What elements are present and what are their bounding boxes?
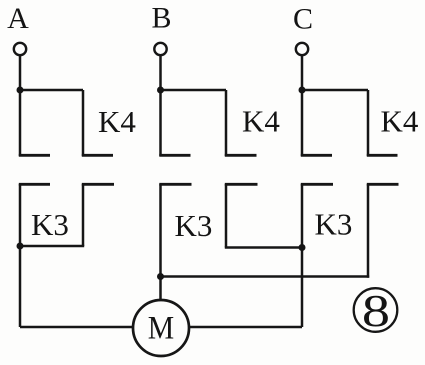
svg-text:K4: K4	[98, 104, 136, 139]
svg-text:B: B	[151, 2, 171, 35]
svg-text:K3: K3	[175, 208, 213, 243]
svg-text:M: M	[148, 309, 174, 346]
svg-text:C: C	[293, 3, 313, 36]
svg-text:A: A	[7, 2, 29, 35]
svg-text:8: 8	[362, 287, 390, 336]
svg-text:K3: K3	[31, 207, 69, 242]
svg-text:K3: K3	[315, 207, 353, 242]
svg-text:K4: K4	[381, 104, 419, 139]
svg-text:K4: K4	[242, 104, 280, 139]
